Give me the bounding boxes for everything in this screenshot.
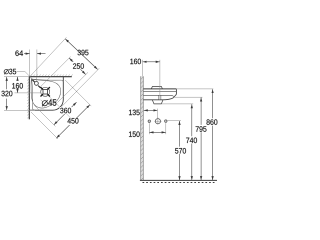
ext W1 diagonal (for 360/450 upper ends) bbox=[65, 80, 91, 106]
fixing hole left (side) bbox=[148, 120, 150, 122]
label 250 bbox=[72, 62, 84, 69]
dim 160 line (plan) bbox=[17, 77, 19, 80]
dim 360 line bbox=[54, 102, 77, 125]
wall strip fill (side) bbox=[141, 76, 144, 180]
label 450 bbox=[67, 118, 79, 125]
wall top (plan) bbox=[29, 76, 72, 78]
dim 160/320 extension lines (plan left) bbox=[4, 76, 29, 78]
dim 570 line upper bbox=[179, 121, 181, 147]
label 64 bbox=[15, 50, 23, 56]
label 570 bbox=[175, 148, 186, 154]
dim 795 line lower bbox=[200, 132, 202, 180]
wall left (plan) bbox=[28, 76, 30, 119]
drain inner square bbox=[43, 90, 47, 94]
label 160 side bbox=[130, 59, 141, 65]
label 320 bbox=[1, 91, 12, 97]
dim 860 ext bbox=[177, 88, 214, 90]
basin inner bowl (plan) bbox=[31, 79, 63, 82]
ext corner diagonal (plan, for 395) bbox=[30, 37, 66, 76]
dim 160 line (side) bbox=[143, 61, 147, 63]
dim 150 line bbox=[150, 131, 166, 133]
ext W2 diagonal (for 450 lower end) bbox=[31, 112, 58, 139]
dim 64 extension lines bbox=[29, 50, 31, 77]
basin rim third line bbox=[143, 95, 173, 96]
dim 250 line bbox=[69, 58, 85, 74]
floor line (side) bbox=[140, 179, 217, 181]
dim 160 (side) extension lines bbox=[142, 60, 144, 77]
dim 860 line upper bbox=[212, 89, 214, 118]
fixing hole right (side) bbox=[165, 120, 167, 122]
dim 64 line with arrows bbox=[24, 53, 30, 55]
wall hatch left (plan) bbox=[27, 79, 29, 118]
dim 570 line lower bbox=[179, 154, 181, 180]
dim 795 line upper bbox=[200, 98, 202, 125]
dim 135 line bbox=[144, 109, 158, 111]
basin underside bbox=[143, 98, 173, 100]
drain outlet cross bbox=[154, 118, 161, 125]
dim 320 line (plan) bbox=[6, 77, 8, 89]
ext front diagonal (plan, for 395 right end) bbox=[62, 68, 100, 106]
dim 150 ext lines bbox=[148, 123, 150, 134]
trap (side) bbox=[152, 100, 163, 104]
basin side profile top line bbox=[143, 88, 176, 90]
wall strip edges bbox=[140, 76, 142, 180]
label ⌀35 with leader bbox=[4, 70, 8, 74]
floor hatch bbox=[143, 182, 217, 184]
drain through-hole (side) bbox=[158, 96, 160, 100]
tap hole ⌀35 (plan) bbox=[35, 82, 39, 86]
drain cross dashes bbox=[41, 87, 50, 96]
label 740 bbox=[186, 138, 197, 144]
wall hatch ticks (side) bbox=[141, 77, 144, 180]
ext tap diagonal (for 250 left end) bbox=[40, 57, 70, 87]
label 795 bbox=[196, 126, 207, 132]
dim 740 line upper bbox=[191, 104, 193, 136]
tap hole center dashes bbox=[32, 80, 40, 88]
dim 795 ext bbox=[174, 96, 202, 98]
label 150 bbox=[129, 131, 140, 137]
dim 570 ext bbox=[167, 120, 181, 122]
label ⌀45 with leader bbox=[41, 100, 44, 102]
label 160 plan bbox=[12, 83, 23, 89]
label 360 bbox=[60, 107, 72, 114]
dim 860 line lower bbox=[212, 126, 214, 181]
ext bowl-left diagonal (for 360 lower end) bbox=[34, 105, 55, 126]
diagonal centerline (plan axis) bbox=[30, 77, 70, 117]
basin front face and apron slant bbox=[173, 89, 176, 98]
label 395 bbox=[78, 50, 89, 56]
basin outer rim (plan) bbox=[30, 77, 64, 110]
dim 740 line lower bbox=[191, 144, 193, 181]
dim 740 ext bbox=[162, 103, 193, 105]
basin rim second line bbox=[143, 90, 176, 92]
dim 135 ext bbox=[157, 109, 159, 119]
drain outlet circle (side) bbox=[155, 119, 160, 124]
label 135 bbox=[129, 110, 140, 116]
label 860 bbox=[207, 119, 218, 125]
tap bump (side) bbox=[151, 87, 162, 89]
wall hatch top (plan) bbox=[31, 74, 73, 76]
dim 395 line bbox=[65, 39, 97, 70]
dim 450 line bbox=[56, 105, 90, 139]
drain outer circle (plan) bbox=[41, 87, 50, 96]
ext bowl-front diagonal (for 250 right end) bbox=[58, 72, 89, 102]
